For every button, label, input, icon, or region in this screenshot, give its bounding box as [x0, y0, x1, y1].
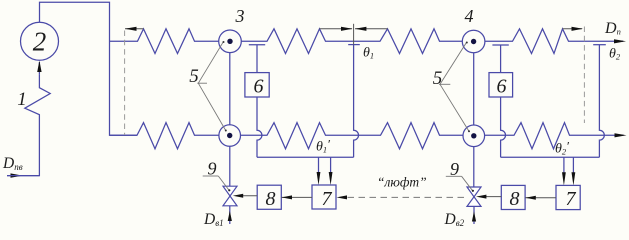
- sensor theta1 vertical: [348, 45, 360, 158]
- wire: below valve 9-1: [229, 206, 231, 224]
- svg-text:6: 6: [254, 76, 264, 98]
- dimension arrow right: [563, 28, 583, 30]
- svg-text:Dп: Dп: [604, 20, 621, 37]
- box 8-2: [501, 185, 525, 209]
- injector circle 3 lower: [219, 125, 241, 147]
- svg-text:7: 7: [322, 188, 333, 210]
- dashed boundary right: [583, 27, 585, 124]
- svg-text:Dв2: Dв2: [444, 211, 465, 228]
- signal 7-2 to 8-2: [525, 197, 556, 199]
- arrow Dpv input: [11, 173, 23, 177]
- arrow row2 outlet: [615, 133, 627, 137]
- box 7-2: [556, 185, 580, 209]
- svg-text:6: 6: [497, 76, 507, 98]
- svg-text:“люфт”: “люфт”: [377, 175, 427, 190]
- valve 9-1: [223, 186, 237, 206]
- box 6-2: [489, 73, 513, 97]
- dashed lyuft feedback line: [348, 196, 467, 198]
- arrow row1 outlet: [614, 39, 626, 43]
- injector circle 4 upper: [462, 30, 485, 53]
- svg-text:θ1: θ1: [363, 46, 374, 61]
- injector circle 3 upper: [219, 30, 242, 53]
- box 7-1: [312, 185, 336, 209]
- wire: drops into box 7-2: [563, 157, 565, 176]
- wire: circle 4 lower to valve 9-2: [473, 147, 475, 187]
- svg-text:4: 4: [465, 6, 474, 26]
- svg-text:θ2: θ2: [609, 47, 621, 62]
- sensor theta2 vertical: [593, 45, 606, 158]
- signal 7-1 to 8-1: [281, 196, 312, 198]
- wire: row 1 upper steam line with superheater zigzags: [110, 29, 219, 54]
- svg-text:θ2′: θ2′: [555, 139, 569, 157]
- svg-text:Dв1: Dв1: [203, 211, 224, 228]
- signal 8-2 to valve 9-2: [481, 196, 501, 198]
- svg-text:9: 9: [208, 159, 217, 179]
- svg-text:8: 8: [510, 188, 520, 210]
- box 8-1: [257, 185, 281, 209]
- dashed boundary left: [124, 31, 126, 136]
- valve 9-2: [467, 187, 481, 206]
- sensor tap to box 6-2: [492, 45, 508, 157]
- wire: circle 3 lower to valve 9: [229, 146, 231, 186]
- sensor tap to box 6-1: [249, 45, 265, 157]
- wire: drops into box 7-1: [318, 157, 320, 176]
- signal 8-1 to valve 9-1: [238, 195, 257, 197]
- svg-text:3: 3: [235, 6, 245, 26]
- wire: Dпв inlet line: [7, 175, 39, 177]
- resistor/economizer 1 (vertical zigzag): [7, 75, 50, 176]
- svg-text:θ1′: θ1′: [316, 137, 330, 155]
- injector circle 4 lower: [463, 125, 485, 147]
- svg-text:5: 5: [189, 66, 199, 87]
- svg-text:Dпв: Dпв: [2, 155, 23, 172]
- bracket stage 1: [257, 156, 354, 158]
- pump/circle 2: [21, 22, 59, 60]
- wire: connector between circle pair 4: [473, 53, 475, 125]
- dimension arrows meeting at theta1: [320, 28, 353, 30]
- svg-text:2: 2: [33, 27, 47, 57]
- wire: top line from pump 2 to left bus: [40, 2, 138, 135]
- box 6-1: [245, 73, 269, 97]
- arrow into circle 2: [38, 62, 40, 75]
- svg-text:7: 7: [566, 188, 577, 210]
- svg-text:1: 1: [17, 89, 27, 110]
- wire: connector between circle pair 3: [229, 53, 231, 125]
- bracket stage 2: [501, 156, 600, 158]
- dimension arrow left: [125, 28, 144, 30]
- svg-text:8: 8: [266, 188, 276, 210]
- wire: row 2 lower steam line with superheater zigzags: [110, 123, 219, 149]
- wire: below valve 9-2: [473, 207, 475, 224]
